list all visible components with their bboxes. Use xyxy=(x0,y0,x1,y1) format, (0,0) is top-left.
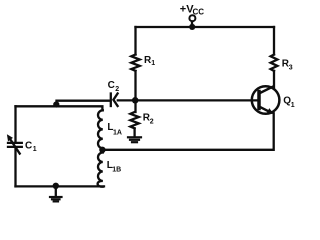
svg-text:3: 3 xyxy=(289,65,293,72)
svg-text:1B: 1B xyxy=(112,166,121,173)
svg-text:2: 2 xyxy=(115,86,119,93)
svg-text:1: 1 xyxy=(291,102,295,109)
svg-text:1A: 1A xyxy=(113,130,122,137)
svg-text:1: 1 xyxy=(151,60,155,67)
svg-text:CC: CC xyxy=(193,8,205,17)
svg-text:C: C xyxy=(25,141,32,152)
svg-text:2: 2 xyxy=(150,119,154,126)
svg-text:1: 1 xyxy=(33,146,37,153)
svg-text:C: C xyxy=(108,80,115,91)
